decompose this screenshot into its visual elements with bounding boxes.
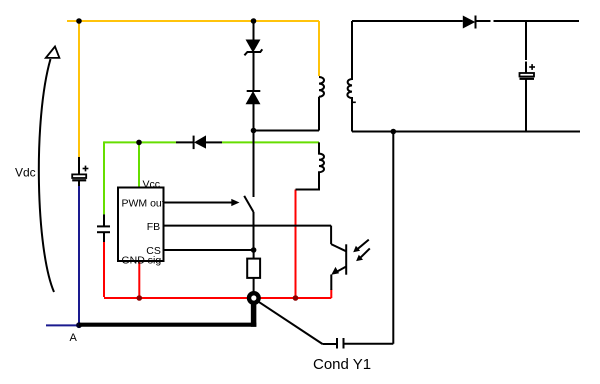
svg-text:FB: FB <box>147 221 160 233</box>
svg-text:GND sig: GND sig <box>122 254 162 266</box>
inductor L1 primary winding <box>319 77 324 131</box>
node: junction CS / switch source <box>251 247 257 253</box>
inductor L3 secondary winding <box>347 21 352 132</box>
node A: junction blue/thick ground <box>76 322 82 328</box>
wire: snubber top lead <box>253 21 255 40</box>
wire: thick primary return <box>79 300 256 327</box>
node: star ground ring <box>249 293 323 344</box>
resistor R1 current sense <box>247 259 260 278</box>
node: junction at bulk cap top <box>76 18 82 24</box>
wire: orange drop to primary winding <box>318 21 320 76</box>
node: junction red at IC ground <box>137 295 143 301</box>
wire: orange DC bus top <box>67 20 319 22</box>
wire: secondary top <box>352 20 463 22</box>
node: junction red at aux return <box>293 295 299 301</box>
wire: green drop to IC Vcc pin <box>138 142 140 187</box>
decoration: light arrows into opto <box>353 240 370 262</box>
capacitor C2 output electrolytic <box>520 21 536 132</box>
node: junction top bus / snubber <box>251 18 257 24</box>
wire: green Vcc net horizontal <box>104 141 319 143</box>
wire: between snubber diodes <box>253 52 255 91</box>
wire: PWM out gate drive arrow <box>164 199 240 206</box>
diode D4 aux rectifier (pointing left) <box>176 135 222 149</box>
diode D2 (blocking, pointing up) <box>246 91 260 104</box>
wire: red GND-sig net <box>104 190 331 299</box>
switch S1 (MOSFET idealized) <box>244 131 253 251</box>
inductor L2 aux winding <box>296 142 325 189</box>
capacitor C1 bulk electrolytic <box>72 157 88 186</box>
capacitor C3 Vcc <box>97 214 110 242</box>
diode D1 zener (clamp) <box>244 40 262 55</box>
wire: primary bottom to switch <box>254 130 320 132</box>
node: junction on secondary return <box>391 129 397 135</box>
wire: snubber bottom lead <box>253 104 255 131</box>
svg-text:Vdc: Vdc <box>15 165 36 179</box>
svg-text:PWM out: PWM out <box>122 197 165 209</box>
wire: CS line <box>164 249 254 251</box>
svg-text:Cond Y1: Cond Y1 <box>313 356 371 373</box>
op-amp U1 PWM controller box <box>118 188 164 262</box>
wire: Y1 cap up to secondary return <box>392 132 394 344</box>
wire: FB line to optocoupler <box>164 225 332 227</box>
wire: green left leg to Vcc cap <box>103 141 105 214</box>
wire: secondary bottom <box>352 131 580 133</box>
wire: resistor to star node <box>253 278 255 293</box>
wire: blue negative rail <box>46 186 79 326</box>
wire: orange left rail down to bulk cap <box>78 21 80 157</box>
node: junction snubber / primary bottom <box>251 128 257 134</box>
transistor Q1 optocoupler phototransistor <box>331 226 346 290</box>
decoration: winding sense tick <box>352 101 356 103</box>
capacitor C4 Cond Y1 <box>323 338 394 349</box>
wire: diode to output <box>476 20 580 22</box>
svg-text:A: A <box>70 332 78 344</box>
svg-text:Vcc: Vcc <box>143 178 161 190</box>
wire: CS junction to resistor <box>253 250 255 259</box>
decoration: Vdc arc arrow <box>39 47 60 293</box>
node: junction on green net <box>136 140 142 146</box>
diode D3 output rectifier <box>463 16 476 29</box>
